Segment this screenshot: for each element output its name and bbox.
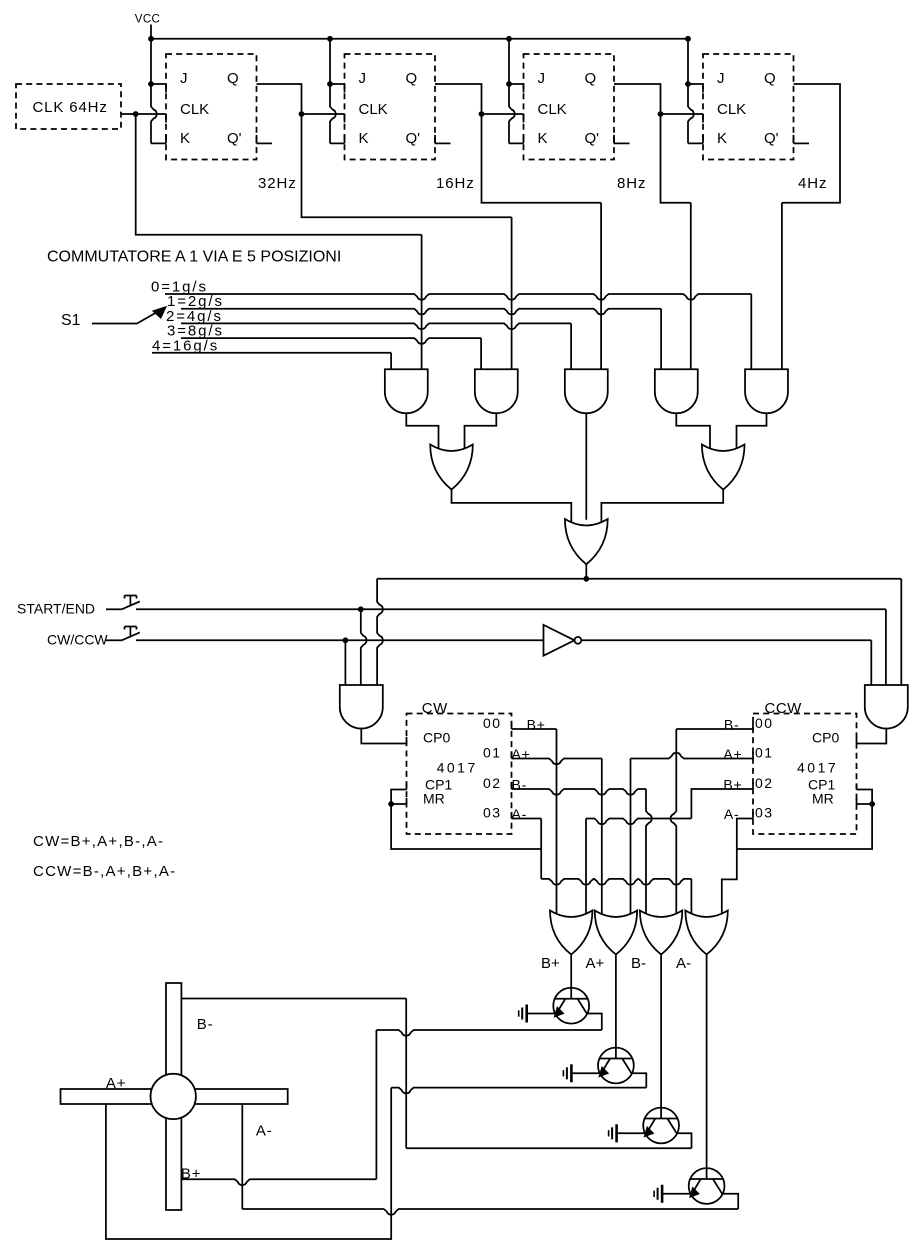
counter U7 pin O2 tick	[752, 783, 754, 790]
wire Q2 collector to coil A+	[391, 1073, 646, 1093]
svg-text:K: K	[180, 130, 190, 147]
wire CW/CCW to left AND	[344, 640, 346, 685]
wire U7 O3 (A-) to OR-AM	[722, 819, 753, 919]
svg-text:Q': Q'	[406, 130, 421, 147]
flip-flop U4 pin K tick	[702, 135, 704, 144]
switch S1 label	[61, 312, 81, 329]
flip-flop U3 pin K tick	[523, 135, 525, 144]
wire U2 Q' stub	[435, 142, 451, 144]
label U7 input B+	[723, 777, 742, 793]
label coil B-	[197, 1016, 214, 1033]
svg-text:B+: B+	[541, 955, 560, 972]
wire position line 3 (hops clock drops)	[181, 338, 481, 369]
wire G7 out to CCW CP0	[857, 729, 887, 744]
wire 8Hz down to AND4	[661, 114, 691, 369]
AND gate G7 (CCW enable)	[865, 685, 908, 729]
svg-text:CLK 64Hz: CLK 64Hz	[33, 99, 108, 116]
svg-text:B+: B+	[527, 717, 546, 733]
clock source CLK 64Hz box	[16, 84, 121, 129]
svg-text:B+: B+	[181, 1166, 201, 1183]
flip-flop U1 pin Q label	[227, 70, 239, 87]
wire VCC to U4 K (hops CLK wire)	[688, 84, 703, 143]
junction U3 J node	[506, 81, 512, 87]
svg-text:Q': Q'	[227, 130, 242, 147]
label 16Hz	[436, 175, 475, 192]
counter U7 pin MR label	[812, 791, 834, 807]
label phase A-	[676, 955, 691, 972]
flip-flop U2 pin Q' label	[406, 130, 421, 147]
svg-text:CLK: CLK	[180, 101, 209, 118]
svg-text:A-: A-	[256, 1123, 273, 1140]
wire U6 O2 (B-) to OR-BM	[512, 789, 652, 918]
wire VCC to U4 J	[688, 39, 703, 84]
flip-flop U1 pin J tick	[165, 84, 167, 93]
flip-flop U3 pin Q' label	[585, 130, 600, 147]
flip-flop U1 pin J label	[180, 70, 188, 87]
transistor Q3	[643, 1108, 679, 1144]
counter U6 pin O3 label	[483, 805, 502, 821]
flip-flop U2 pin K tick	[344, 135, 346, 144]
counter U7 pin CP1 label	[808, 777, 835, 793]
counter U6 pin MR tick	[406, 798, 408, 804]
svg-text:Q: Q	[406, 70, 418, 87]
wire U7 CP1/MR to O3 net	[737, 790, 872, 850]
svg-text:A+: A+	[723, 746, 742, 762]
AND gate G1	[385, 369, 428, 413]
wire G6 out to CW CP0	[361, 729, 406, 744]
label position 0=1g/s	[151, 279, 208, 296]
inverter U5	[544, 625, 582, 656]
wire G4 out to OR-B	[676, 413, 710, 451]
wire VCC to U2 J	[330, 39, 345, 84]
wire clock rail	[377, 578, 901, 580]
flip-flop U1 pin K label	[180, 130, 190, 147]
wire Q3 collector to coil B-	[181, 999, 691, 1149]
wire OR out to Q1 base	[570, 955, 572, 988]
wire G5 out to OR-B	[737, 413, 767, 451]
AND gate G2	[475, 369, 518, 413]
junction 32Hz branch node	[299, 111, 305, 117]
flip-flop U1 pin CLK tick	[165, 114, 167, 123]
junction U7 MR node	[869, 801, 875, 807]
wire CW/CCW line to inverter	[136, 639, 544, 641]
junction VCC rail tap 1	[148, 36, 154, 42]
flip-flop U4 pin K label	[717, 130, 727, 147]
label coil A-	[256, 1123, 273, 1140]
flip-flop U1 pin Q' tick	[256, 135, 258, 144]
label commutatore title	[47, 249, 341, 266]
wire START/END to right AND	[885, 609, 887, 685]
label U6 output A+	[512, 746, 531, 762]
svg-text:Q: Q	[227, 70, 239, 87]
wire 64Hz down to AND1	[136, 114, 422, 369]
OR gate OR-BM	[640, 911, 682, 955]
wire U3 Q' stub	[614, 142, 630, 144]
counter U7 pin O1 label	[755, 745, 774, 761]
label position 1=2g/s	[167, 293, 224, 310]
junction CW/CCW branch	[343, 637, 349, 643]
AND gate G3	[565, 369, 608, 413]
svg-text:CP0: CP0	[423, 730, 450, 746]
label 32Hz	[258, 175, 297, 192]
label U6 output B-	[512, 777, 528, 793]
wire U6 O1 (A+) to OR-AP	[512, 759, 602, 919]
wire 32Hz down to AND2	[302, 114, 512, 369]
label position 2=4g/s	[166, 308, 223, 325]
counter U6 pin O2 label	[483, 775, 502, 791]
svg-text:4017: 4017	[797, 760, 838, 776]
counter U6 pin MR label	[423, 791, 445, 807]
svg-text:J: J	[359, 70, 367, 87]
label 8Hz	[617, 175, 646, 192]
svg-text:16Hz: 16Hz	[436, 175, 475, 192]
wire U1 Q to U2 CLK	[257, 84, 345, 114]
svg-text:01: 01	[755, 745, 774, 761]
svg-text:MR: MR	[423, 791, 445, 807]
wire OR out to Q3 base	[660, 955, 662, 1108]
junction 64Hz branch node	[133, 111, 139, 117]
wire OR-A out to OR-C	[452, 490, 572, 525]
flip-flop U1 box	[166, 54, 257, 160]
transistor Q1	[553, 988, 589, 1024]
counter U7 pin O3 label	[755, 805, 774, 821]
svg-text:CW=B+,A+,B-,A-: CW=B+,A+,B-,A-	[33, 833, 164, 850]
label phase A+	[586, 955, 605, 972]
svg-text:MR: MR	[812, 791, 834, 807]
label phase B-	[631, 955, 646, 972]
junction U2 J node	[327, 81, 333, 87]
OR gate OR-C	[565, 519, 608, 564]
svg-text:K: K	[538, 130, 548, 147]
transistor Q2	[598, 1048, 634, 1084]
transistor Q4	[689, 1168, 725, 1204]
svg-text:CW: CW	[422, 700, 448, 717]
label coil A+	[106, 1075, 126, 1092]
label U7 input B-	[724, 717, 740, 733]
flip-flop U1 pin Q' label	[227, 130, 242, 147]
wire position line 0 (hops clock drops)	[165, 294, 751, 369]
wire CLK64Hz output to U1 CLK	[121, 113, 166, 115]
svg-text:A+: A+	[106, 1075, 126, 1092]
svg-text:8Hz: 8Hz	[617, 175, 646, 192]
ground Q3 emitter	[609, 1124, 645, 1142]
motor rotor	[151, 1074, 196, 1119]
counter U7 pin CP0 tick	[856, 738, 858, 744]
OR gate OR-BP	[550, 911, 592, 955]
flip-flop U2 pin J tick	[344, 84, 346, 93]
counter U6 pin O2 tick	[511, 783, 513, 790]
counter U7 (4017 CCW) box	[753, 714, 857, 835]
OR gate OR-AP	[595, 911, 637, 955]
counter U6 pin O0 label	[483, 715, 502, 731]
ground Q4 emitter	[654, 1185, 690, 1203]
flip-flop U4 box	[703, 54, 794, 160]
counter U6 pin CP0 tick	[406, 737, 408, 744]
flip-flop U4 pin Q label	[764, 70, 776, 87]
counter U7 pin O0 label	[755, 715, 774, 731]
motor coil B (vertical winding)	[166, 983, 181, 1210]
flip-flop U4 pin CLK label	[717, 101, 746, 118]
wire U1 Q' stub	[257, 142, 273, 144]
svg-text:4=16g/s: 4=16g/s	[152, 337, 219, 354]
svg-text:COMMUTATORE A 1 VIA E 5 POSIZI: COMMUTATORE A 1 VIA E 5 POSIZIONI	[47, 249, 341, 266]
flip-flop U4 pin Q' label	[764, 130, 779, 147]
svg-text:START/END: START/END	[17, 601, 95, 617]
counter U6 label 4017	[437, 760, 478, 776]
counter U7 pin O3 tick	[752, 812, 754, 819]
label U7 input A-	[724, 806, 740, 822]
wire U6 CP1/MR to O3 net	[391, 790, 541, 850]
wire clock to right AND	[900, 579, 902, 685]
label CW sequence	[33, 833, 164, 850]
label position 3=8g/s	[167, 323, 224, 340]
counter U6 pin CP1 label	[425, 777, 452, 793]
wire position line 2 (hops clock drops)	[181, 323, 571, 369]
switch S1 arrowhead	[153, 307, 166, 319]
flip-flop U3 pin J tick	[523, 84, 525, 93]
svg-text:32Hz: 32Hz	[258, 175, 297, 192]
wire G2 out to OR-A	[465, 413, 497, 451]
counter U7 label 4017	[797, 760, 838, 776]
wire VCC to U2 K (hops CLK wire)	[330, 84, 345, 143]
counter U6 label CW	[422, 700, 448, 717]
counter U7 pin O2 label	[755, 775, 774, 791]
OR gate OR-B	[702, 445, 745, 490]
label phase B+	[541, 955, 560, 972]
wire VCC to U3 K (hops CLK wire)	[509, 84, 524, 143]
flip-flop U2 pin CLK label	[359, 101, 388, 118]
label START/END	[17, 601, 95, 617]
counter U7 label CCW	[765, 700, 803, 717]
wire OR out to Q4 base	[706, 955, 708, 1169]
svg-text:Q: Q	[585, 70, 597, 87]
svg-text:CCW=B-,A+,B+,A-: CCW=B-,A+,B+,A-	[33, 863, 176, 880]
flip-flop U4 pin J label	[717, 70, 725, 87]
counter U6 pin O1 label	[483, 745, 502, 761]
label CW/CCW	[47, 632, 108, 648]
wire START/END to left AND	[361, 609, 367, 685]
counter U6 pin CP1 tick	[406, 784, 408, 790]
wire U4 Q' stub	[794, 142, 810, 144]
wire coil A+ feed	[106, 1088, 391, 1239]
counter U6 (4017 CW) box	[407, 714, 512, 835]
svg-text:4017: 4017	[437, 760, 478, 776]
counter U7 pin MR tick	[856, 798, 858, 804]
wire OR out to Q2 base	[615, 955, 617, 1048]
clock source CLK 64Hz label	[33, 99, 108, 116]
wire START/END line	[136, 608, 886, 610]
svg-text:CLK: CLK	[538, 101, 567, 118]
svg-text:02: 02	[755, 775, 774, 791]
svg-text:00: 00	[755, 715, 774, 731]
svg-text:CW/CCW: CW/CCW	[47, 632, 108, 648]
flip-flop U2 box	[345, 54, 436, 160]
wire U6 O3 (A-) to bus	[512, 819, 692, 919]
svg-text:K: K	[717, 130, 727, 147]
svg-text:00: 00	[483, 715, 502, 731]
junction 8Hz branch node	[658, 111, 664, 117]
flip-flop U3 box	[524, 54, 615, 160]
flip-flop U3 pin CLK tick	[523, 114, 525, 123]
wire Q1 collector to coil B+	[181, 1014, 601, 1186]
switch S1 blade	[137, 312, 158, 324]
flip-flop U3 pin Q' tick	[613, 135, 615, 144]
svg-text:A+: A+	[586, 955, 605, 972]
junction U1 J node	[148, 81, 154, 87]
wire U7 O0 (B-) to OR-BM	[671, 729, 753, 918]
label U6 output A-	[512, 806, 528, 822]
junction U4 J node	[685, 81, 691, 87]
flip-flop U4 pin CLK tick	[702, 114, 704, 123]
flip-flop U2 pin J label	[359, 70, 367, 87]
svg-text:Q: Q	[764, 70, 776, 87]
svg-text:02: 02	[483, 775, 502, 791]
switch S1 pole wire	[92, 323, 137, 325]
junction VCC rail tap 4	[685, 36, 691, 42]
wire VCC top rail	[151, 38, 688, 40]
svg-text:S1: S1	[61, 312, 81, 329]
wire inverter out to right AND	[581, 640, 871, 685]
flip-flop U4 pin Q' tick	[793, 135, 795, 144]
svg-text:Q': Q'	[764, 130, 779, 147]
OR gate OR-A	[430, 445, 473, 490]
svg-text:B+: B+	[723, 777, 742, 793]
svg-text:K: K	[359, 130, 369, 147]
wire U2 Q to U3 CLK	[435, 84, 524, 114]
counter U6 pin O3 tick	[511, 812, 513, 819]
svg-text:Q': Q'	[585, 130, 600, 147]
svg-text:A-: A-	[676, 955, 691, 972]
svg-text:01: 01	[483, 745, 502, 761]
flip-flop U3 pin K label	[538, 130, 548, 147]
flip-flop U3 pin J label	[538, 70, 546, 87]
svg-text:VCC: VCC	[135, 14, 160, 26]
wire position line 1 (hops clock drops)	[181, 309, 661, 370]
wire U6 O0 (B+) to OR-BP	[512, 729, 557, 918]
flip-flop U1 pin K tick	[165, 135, 167, 144]
wire VCC to U1 K (hops CLK wire)	[151, 84, 166, 143]
AND gate G6 (CW enable)	[340, 685, 383, 729]
wire G1 out to OR-A	[406, 413, 438, 451]
junction VCC rail tap 2	[327, 36, 333, 42]
svg-text:J: J	[717, 70, 725, 87]
wire U7 O2 (B+) to OR-BP	[586, 789, 753, 918]
wire VCC to U3 J	[509, 39, 524, 84]
svg-text:03: 03	[755, 805, 774, 821]
counter U7 pin CP0 label	[812, 730, 839, 746]
svg-text:4Hz: 4Hz	[798, 175, 827, 192]
label 4Hz	[798, 175, 827, 192]
junction clock rail node	[583, 576, 589, 582]
label U6 output B+	[527, 717, 546, 733]
svg-text:CLK: CLK	[717, 101, 746, 118]
counter U7 pin O1 tick	[752, 752, 754, 759]
motor coil A (horizontal winding)	[61, 1089, 288, 1104]
junction 16Hz branch node	[479, 111, 485, 117]
wire position line 4 (hops clock drops)	[152, 353, 391, 369]
wire U3 Q to U4 CLK	[614, 84, 703, 114]
label position 4=16g/s	[152, 337, 219, 354]
wire U4 Q 4Hz down to AND5	[782, 84, 840, 369]
AND gate G4	[655, 369, 698, 413]
ground Q1 emitter	[519, 1005, 555, 1023]
counter U7 pin O0 tick	[752, 723, 754, 730]
label CCW sequence	[33, 863, 176, 880]
svg-text:B-: B-	[631, 955, 646, 972]
OR gate OR-AM	[685, 911, 727, 955]
junction VCC rail tap 3	[506, 36, 512, 42]
flip-flop U2 pin Q label	[406, 70, 418, 87]
power rail VCC label	[135, 14, 160, 26]
flip-flop U4 pin J tick	[702, 84, 704, 93]
svg-text:A+: A+	[512, 746, 531, 762]
svg-text:B-: B-	[512, 777, 528, 793]
svg-text:B-: B-	[197, 1016, 214, 1033]
AND gate G5	[745, 369, 788, 413]
svg-text:CP0: CP0	[812, 730, 839, 746]
wire VCC to U1 J	[151, 39, 166, 84]
label U7 input A+	[723, 746, 742, 762]
wire 16Hz down to AND3	[482, 114, 602, 369]
flip-flop U1 pin CLK label	[180, 101, 209, 118]
wire clock to left AND	[377, 579, 383, 685]
wire G3 out to OR-C	[585, 413, 587, 520]
switch SW-START/END	[106, 596, 140, 610]
switch SW-CW/CCW	[106, 627, 140, 641]
counter U6 pin O1 tick	[511, 752, 513, 759]
svg-text:A-: A-	[512, 806, 528, 822]
wire OR-B out to OR-C	[601, 490, 723, 525]
flip-flop U2 pin Q' tick	[434, 135, 436, 144]
flip-flop U2 pin CLK tick	[344, 114, 346, 123]
svg-text:B-: B-	[724, 717, 740, 733]
counter U6 pin CP0 label	[423, 730, 450, 746]
flip-flop U2 pin K label	[359, 130, 369, 147]
flip-flop U3 pin CLK label	[538, 101, 567, 118]
svg-text:J: J	[538, 70, 546, 87]
svg-text:CLK: CLK	[359, 101, 388, 118]
flip-flop U3 pin Q label	[585, 70, 597, 87]
wire U7 O1 (A+) to OR-AP	[631, 753, 754, 918]
ground Q2 emitter	[563, 1064, 599, 1082]
svg-text:J: J	[180, 70, 188, 87]
svg-text:03: 03	[483, 805, 502, 821]
label coil B+	[181, 1166, 201, 1183]
junction START/END branch	[358, 606, 364, 612]
wire Q4 collector to coil A-	[242, 1104, 738, 1215]
wire OR-C output to clock rail	[585, 564, 587, 579]
junction U6 MR node	[388, 801, 394, 807]
counter U6 pin O0 tick	[511, 723, 513, 730]
wire VCC stem	[150, 25, 152, 39]
counter U7 pin CP1 tick	[856, 784, 858, 790]
